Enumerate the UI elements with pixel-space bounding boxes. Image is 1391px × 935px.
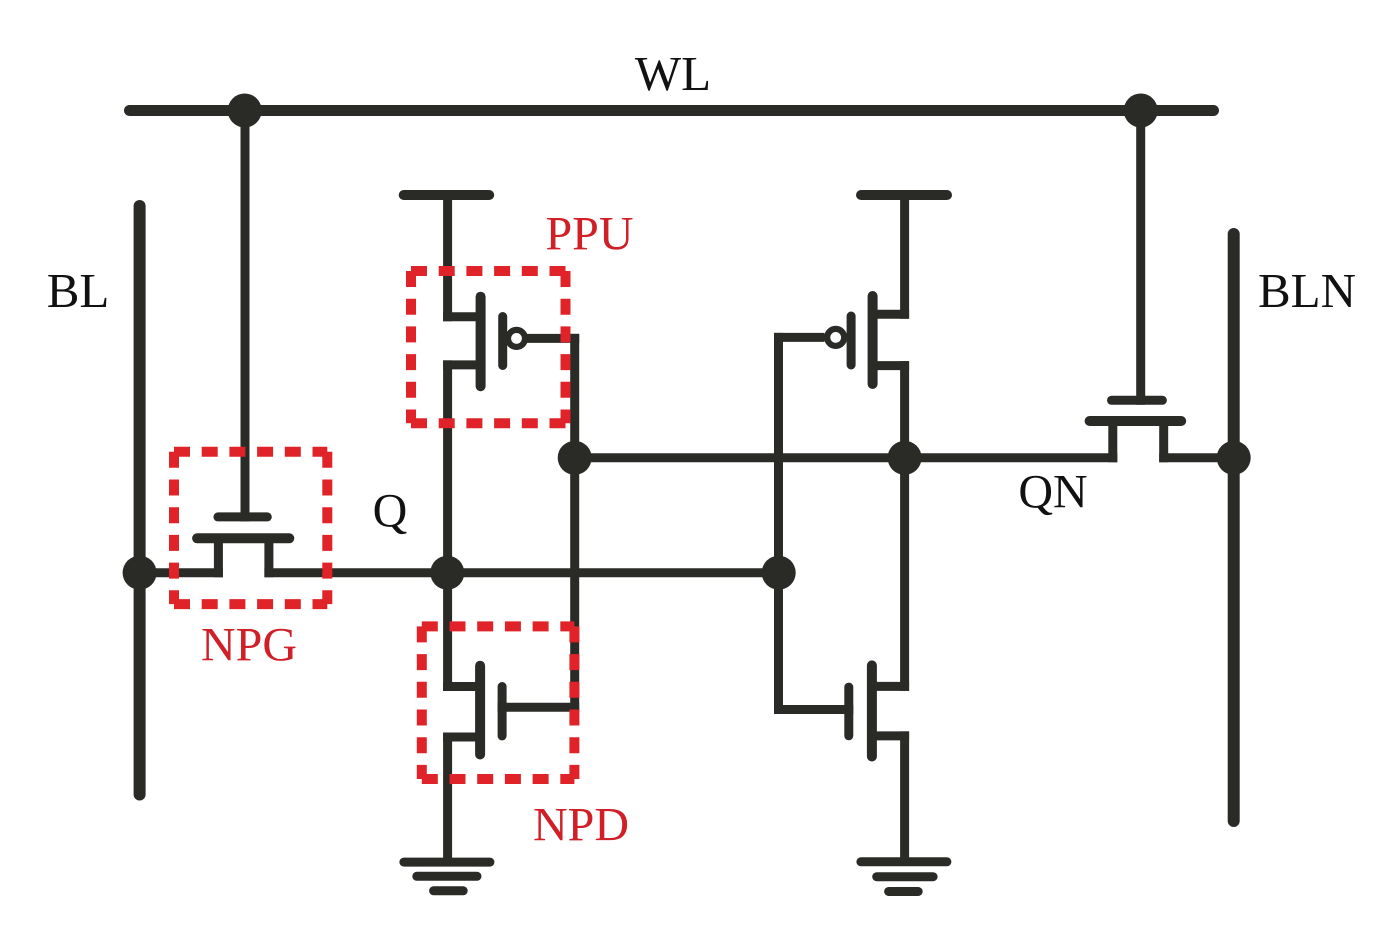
- transistor NPD gate plate: [498, 687, 507, 736]
- transistor NPD source stub: [448, 682, 481, 691]
- ground symbol left bar3: [434, 886, 464, 895]
- junction dot WL-right: [1124, 94, 1158, 128]
- transistor NPG channel bar: [197, 533, 289, 543]
- transistor PPU drain stub: [448, 360, 481, 369]
- transistor right pass source lead: [1108, 421, 1117, 458]
- svg-text:NPG: NPG: [201, 619, 297, 672]
- transistor right pass channel bar: [1090, 416, 1182, 426]
- transistor PPU channel bar: [476, 297, 486, 387]
- highlight box NPD: [422, 626, 575, 779]
- ground symbol left bar2: [417, 872, 477, 881]
- wire BL bit line: [134, 206, 146, 795]
- wire VDD to PPU source: [443, 195, 452, 317]
- transistor right NMOS gate plate: [844, 687, 853, 736]
- junction dot BLN node: [1217, 441, 1251, 475]
- power rail VDD left: [404, 190, 490, 200]
- wire QN horizontal left part: [575, 453, 1113, 462]
- svg-text:BLN: BLN: [1258, 263, 1356, 318]
- power rail VDD right: [861, 190, 947, 200]
- transistor NPG gate plate: [218, 512, 267, 521]
- transistor right NMOS drain stub: [872, 731, 905, 740]
- transistor right NMOS source stub: [872, 682, 905, 691]
- wire cross-couple right gates vertical: [774, 337, 783, 709]
- ground symbol right bar1: [861, 857, 947, 866]
- transistor NPG source lead: [214, 538, 223, 572]
- transistor right pass drain lead: [1159, 421, 1168, 458]
- junction dot Q wire to right gates: [762, 556, 796, 590]
- transistor NPD drain stub: [448, 733, 481, 742]
- ground symbol right bar2: [877, 872, 933, 881]
- wire gate lead of NPG from WL: [241, 111, 250, 517]
- junction dot QN wire to left gates: [558, 441, 592, 475]
- transistor NPD channel bar: [475, 666, 485, 755]
- node Q junction dot: [430, 556, 464, 590]
- wire WL word line: [130, 105, 1214, 116]
- junction dot WL-left: [228, 94, 262, 128]
- transistor right PMOS gate bubble: [827, 329, 844, 346]
- svg-text:QN: QN: [1018, 466, 1087, 519]
- svg-text:BL: BL: [47, 263, 110, 318]
- wire NPD drain to ground: [443, 737, 452, 858]
- transistor right PMOS drain stub: [873, 361, 905, 370]
- highlight box NPG: [174, 452, 327, 604]
- wire right NMOS drain to ground: [900, 736, 909, 857]
- wire NPG drain to node Q and right-inverter gates: [269, 568, 779, 577]
- wire PPU drain down through Q to NPD source: [443, 365, 452, 687]
- wire PPU gate lead: [528, 334, 575, 343]
- wire right PMOS gate lead: [779, 333, 821, 342]
- wire right PMOS drain to right NMOS source: [900, 366, 909, 687]
- wire gate lead of right pass transistor from WL: [1136, 111, 1145, 401]
- ground symbol right bar3: [889, 887, 919, 896]
- transistor PPU gate plate: [498, 317, 507, 366]
- transistor PPU source stub: [448, 312, 481, 321]
- wire right NMOS gate lead: [779, 705, 849, 714]
- ground symbol left bar1: [404, 858, 490, 867]
- junction dot BL node: [123, 556, 157, 590]
- wire BL to NPG source: [140, 568, 219, 577]
- svg-text:Q: Q: [373, 485, 408, 538]
- svg-text:WL: WL: [635, 46, 711, 101]
- transistor right NMOS channel bar: [867, 665, 877, 756]
- transistor right PMOS channel bar: [868, 296, 878, 384]
- wire cross-couple left gates vertical: [570, 338, 579, 707]
- wire VDD to right PMOS source: [900, 195, 909, 314]
- svg-text:NPD: NPD: [533, 799, 629, 852]
- junction dot QN at right inverter: [888, 441, 922, 475]
- wire NPD gate lead: [502, 703, 575, 712]
- highlight box PPU: [411, 271, 566, 423]
- transistor right PMOS source stub: [873, 310, 905, 319]
- wire BLN bit line complement: [1228, 234, 1240, 821]
- wire right pass drain to BLN: [1164, 453, 1234, 462]
- transistor NPG drain lead: [264, 538, 273, 572]
- transistor right pass gate plate: [1112, 396, 1163, 405]
- transistor PPU gate bubble: [508, 330, 525, 347]
- svg-text:PPU: PPU: [545, 208, 633, 261]
- transistor right PMOS gate plate: [847, 316, 856, 365]
